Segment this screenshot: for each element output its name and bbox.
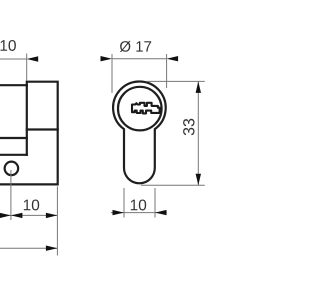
dim 10 bottom-right: left extension line bbox=[123, 188, 125, 218]
overall length dimension line (cut off) bbox=[0, 247, 57, 249]
dim Ø17: right arrowhead (outside, pointing left) bbox=[167, 56, 179, 61]
left view: cam mid line bbox=[27, 128, 58, 130]
dim 10 bottom-right: left arrowhead (outside, pointing right) bbox=[113, 210, 125, 215]
left view: fixing screw hole bbox=[5, 162, 19, 176]
dim 10 bottom-right: right extension line bbox=[154, 188, 156, 218]
dim 33: bottom extension line bbox=[141, 184, 205, 186]
dim 33: top arrowhead (pointing up) bbox=[196, 81, 201, 93]
dim 10 bottom-left: dimension line bbox=[0, 214, 57, 216]
dim 10 top: dimension line bbox=[0, 58, 27, 60]
right view: keyway profile bbox=[132, 103, 160, 114]
dim Ø17: right extension line bbox=[166, 54, 168, 88]
right view: outer euro profile (circle + neck with round bottom) bbox=[113, 81, 166, 183]
label Ø 17 bbox=[120, 41, 151, 52]
dim 33: bottom arrowhead (pointing down) bbox=[196, 174, 201, 186]
dim Ø17: left arrowhead (outside, pointing right) bbox=[101, 56, 113, 61]
dim 33: dimension line bbox=[197, 81, 199, 185]
dim 10 bottom-left: chained arrowhead (pointing right at x=10.9) bbox=[0, 213, 11, 218]
dim 10 bottom-left: extension line from screw hole bbox=[10, 170, 12, 220]
dim Ø17: left extension line bbox=[111, 54, 113, 93]
left view: barrel top line bbox=[0, 84, 27, 86]
label 33 (rotated) bbox=[183, 119, 194, 136]
label 10 (bottom-right) bbox=[131, 200, 146, 211]
left view: cylinder body outline (cam block) bbox=[0, 82, 58, 185]
dim 10 bottom-right: dimension line bbox=[111, 212, 167, 214]
dim Ø17: dimension line bbox=[112, 58, 167, 60]
dim 10 bottom-right: right arrowhead (outside, pointing left) bbox=[155, 210, 167, 215]
dim 33: top extension line bbox=[146, 80, 205, 82]
dim 10 top: extension line bbox=[26, 54, 28, 81]
right view: plug circle bbox=[118, 87, 162, 131]
left view: flange step line bbox=[0, 154, 27, 156]
overall length dim: arrowhead (pointing right) bbox=[46, 246, 58, 251]
left view: barrel bottom step line bbox=[0, 137, 27, 139]
dim 10 bottom-left: left arrowhead (pointing left) bbox=[11, 213, 23, 218]
dim 10 bottom-left: right arrowhead (pointing right) bbox=[46, 213, 58, 218]
label 10 (bottom-left) bbox=[24, 200, 39, 211]
label 10 (top) bbox=[1, 40, 16, 51]
dim 10 top: arrowhead (outside, pointing left) bbox=[27, 56, 39, 61]
extension line at cam face bbox=[56, 186, 58, 255]
